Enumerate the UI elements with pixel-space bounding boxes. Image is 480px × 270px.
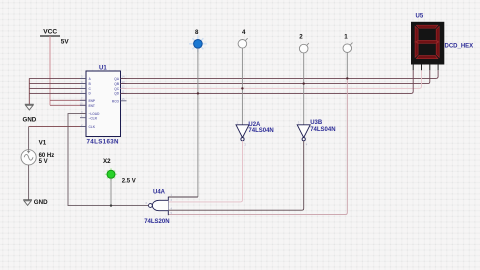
wire B input: [29, 83, 86, 85]
svg-text:2: 2: [299, 34, 303, 41]
svg-text:QB: QB: [114, 82, 119, 86]
wire node1 to U4A pin: [168, 78, 347, 214]
svg-text:VCC: VCC: [43, 29, 57, 36]
junction node2/QB: [303, 82, 305, 84]
right pin stubs: [121, 78, 127, 100]
segment D bottom: [416, 56, 437, 59]
svg-text:GND: GND: [23, 117, 37, 124]
wire QB to display: [121, 70, 430, 83]
wire U2A out to U4A pin: [168, 141, 242, 202]
segment G middle: [417, 41, 438, 44]
wire U4A output to ~LOAD: [68, 114, 149, 206]
wire node8 stem: [197, 48, 199, 197]
node 1 probe: [343, 34, 353, 53]
svg-text:74LS04N: 74LS04N: [310, 127, 335, 133]
svg-text:CLK: CLK: [89, 125, 96, 129]
wire QC to display: [121, 70, 422, 88]
inverter U3B 74LS04N: [297, 120, 335, 147]
counter U1 74LS163N: [80, 65, 127, 145]
nand U4A 74LS20N (mirrored): [144, 190, 172, 226]
svg-text:U4A: U4A: [153, 190, 166, 196]
segment F top-left: [415, 26, 418, 42]
power symbol VCC: [40, 29, 69, 46]
svg-text:74LS20N: 74LS20N: [144, 219, 169, 225]
wire U3B out to U4A pin: [168, 141, 303, 210]
wire V1 top to CLK: [28, 127, 30, 150]
svg-text:2.5 V: 2.5 V: [122, 178, 136, 184]
seven segment display U5 DCD_HEX: [411, 14, 473, 71]
left pin stubs: [80, 78, 86, 126]
wire D input: [29, 92, 86, 94]
ground (V1 negative): [23, 199, 48, 206]
segment E bottom-left: [415, 41, 418, 57]
segment C bottom-right: [436, 41, 439, 57]
junction X2/load wire: [110, 204, 112, 206]
svg-text:15: 15: [122, 97, 126, 101]
wire VCC to ENT: [50, 104, 86, 106]
wire A input: [29, 77, 86, 79]
svg-text:X2: X2: [103, 158, 111, 165]
svg-text:8: 8: [195, 29, 199, 36]
wire QA to display: [121, 70, 439, 78]
inverter U2A 74LS04N: [236, 121, 274, 147]
wire C input: [29, 87, 86, 89]
segment B top-right: [436, 26, 439, 42]
svg-text:GND: GND: [34, 199, 48, 206]
node 2 probe: [299, 34, 309, 53]
svg-text:1: 1: [344, 34, 348, 41]
junction node1/QA: [346, 77, 348, 79]
wire node4 stem to U2A: [241, 48, 243, 125]
svg-text:V1: V1: [39, 140, 47, 147]
svg-text:QD: QD: [114, 92, 119, 96]
wire VCC stem to U1 ENP/ENT: [49, 36, 51, 105]
svg-text:U5: U5: [416, 14, 424, 20]
AC source V1: [21, 140, 54, 166]
svg-text:U2A: U2A: [248, 122, 261, 128]
svg-text:U3B: U3B: [310, 120, 323, 126]
svg-text:DCD_HEX: DCD_HEX: [445, 43, 474, 49]
junction node8/QD: [197, 92, 199, 94]
wire V1 bottom to ground: [28, 165, 30, 200]
svg-text:74LS163N: 74LS163N: [87, 139, 120, 146]
wire X2 stem: [110, 178, 112, 205]
svg-text:~CLR: ~CLR: [89, 116, 98, 120]
wire node8 to U4A pin1: [168, 196, 198, 198]
node 4 probe: [238, 29, 248, 48]
node 8 probe: [189, 29, 207, 53]
wire data bus vertical to ground: [28, 78, 30, 104]
svg-text:10: 10: [80, 102, 84, 106]
probe X2: [103, 158, 136, 184]
segment A top: [416, 25, 437, 28]
svg-text:ENT: ENT: [89, 104, 95, 108]
svg-text:60 Hz: 60 Hz: [39, 153, 55, 159]
svg-text:RCO: RCO: [112, 99, 120, 103]
ground (upper, data inputs): [23, 104, 37, 123]
svg-text:QA: QA: [114, 77, 119, 81]
svg-text:5V: 5V: [61, 38, 70, 45]
svg-text:5 V: 5 V: [39, 159, 48, 165]
wire VCC to ENP: [50, 99, 86, 101]
svg-text:4: 4: [242, 29, 246, 36]
wire node1 stem: [346, 53, 348, 79]
svg-text:QC: QC: [114, 87, 119, 91]
svg-text:U1: U1: [99, 65, 107, 71]
junction node4/QC: [241, 87, 243, 89]
svg-text:74LS04N: 74LS04N: [248, 128, 273, 134]
wire node2 stem to U3B: [303, 53, 305, 125]
display pins: [413, 65, 438, 71]
wire QD to display: [121, 70, 414, 93]
svg-text:ENP: ENP: [89, 99, 96, 103]
